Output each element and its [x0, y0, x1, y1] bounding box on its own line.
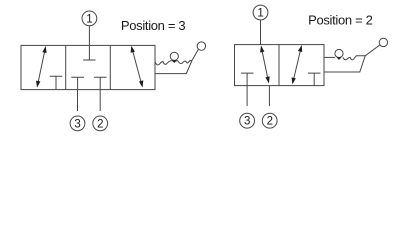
V2 port 3 wire: [246, 86, 248, 107]
valve V2 left box blocked port T: [241, 73, 254, 86]
valve V1 position divider 2: [109, 45, 111, 89]
V2 port 1 label circle: [253, 5, 268, 20]
svg-text:3: 3: [74, 118, 80, 130]
V2 port 3 label circle: [240, 113, 255, 128]
valve V2 body (2-position valve): [235, 45, 325, 86]
V1 lever actuator pivot wedge: [172, 60, 177, 63]
svg-text:Position = 3: Position = 3: [121, 18, 186, 33]
V1 port 1 wire: [88, 26, 90, 46]
V1 lever actuator pivot circle: [170, 52, 178, 60]
V1 port 3 wire: [77, 90, 79, 111]
valve V2 position divider: [278, 45, 280, 86]
V1 lever knob: [197, 42, 205, 50]
valve V1 left box flow arrow: [36, 46, 47, 88]
valve V1 centre box bottom blocked port T (port 3): [71, 77, 84, 89]
valve V1 centre box bottom blocked port T (port 2): [94, 77, 107, 89]
V1 port 2 wire: [99, 90, 101, 111]
V1 port 3 label circle: [70, 116, 85, 131]
valve V1 left box blocked port T: [50, 76, 63, 89]
V2 port 2 label circle: [262, 113, 277, 128]
V2 lever actuator pivot wedge: [337, 57, 342, 60]
V2 lever knob: [379, 38, 387, 46]
V1 port 2 label circle: [93, 116, 108, 131]
valve V1 centre box top blocked port T (port 1): [83, 45, 95, 60]
valve V2 right box blocked port T: [308, 73, 321, 86]
svg-text:1: 1: [86, 13, 92, 25]
V1 lever arm: [192, 49, 198, 60]
V2 port 1 wire: [260, 20, 262, 45]
svg-text:2: 2: [267, 116, 273, 128]
V2 lever actuator pivot circle: [335, 49, 343, 57]
V2 lever actuator link line: [324, 56, 335, 58]
V1 port 1 label circle: [82, 11, 97, 26]
svg-text:2: 2: [97, 118, 103, 130]
V2 lever actuator bottom link: [324, 56, 365, 72]
valve V1 body (3-position valve): [21, 45, 155, 89]
V2 port 2 wire: [268, 86, 270, 107]
V1 lever actuator bottom link: [155, 61, 192, 74]
V2 lever actuator spring wave: [343, 56, 365, 60]
valve V1 position divider 1: [65, 45, 67, 89]
valve V2 right box flow arrow: [292, 45, 303, 84]
svg-text:3: 3: [244, 116, 250, 128]
V2 lever arm: [365, 45, 380, 56]
valve V1 right box flow arrow: [131, 46, 144, 88]
svg-text:1: 1: [257, 8, 263, 20]
V1 lever actuator spring wave: [155, 61, 192, 65]
svg-text:Position = 2: Position = 2: [308, 12, 373, 27]
valve V2 left box flow arrow: [260, 46, 270, 84]
